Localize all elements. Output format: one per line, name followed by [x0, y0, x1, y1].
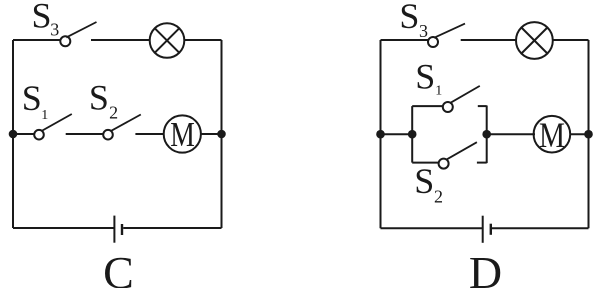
switch S2 (C) blade — [111, 115, 141, 132]
wire: D bottom branch right stub — [477, 162, 487, 164]
wire: C top, left segment to S3 — [13, 39, 61, 41]
switch S1 (D) hinge circle — [443, 102, 453, 112]
wire: C right vertical — [221, 40, 223, 228]
svg-text:2: 2 — [434, 187, 443, 207]
svg-text:2: 2 — [109, 103, 118, 123]
wire: D bottom, left segment to battery — [381, 227, 483, 229]
node: D parallel-block right junction dot — [482, 130, 491, 139]
node: D parallel-block left junction dot — [408, 130, 417, 139]
wire: D right vertical — [588, 40, 590, 228]
svg-text:M: M — [170, 116, 195, 154]
wire: D top branch right stub — [478, 105, 487, 107]
switch S2 (D) hinge circle — [439, 159, 449, 169]
switch S2 (D) blade — [446, 142, 477, 160]
battery (D) long plate — [482, 216, 484, 243]
svg-text:S: S — [22, 78, 42, 118]
wire: D left vertical — [380, 40, 382, 228]
node: C left junction dot — [9, 130, 18, 139]
wire: C middle, S2 to motor — [135, 133, 163, 135]
lamp L (C) cross stroke 1 — [155, 28, 179, 52]
wire: C bottom, left segment to battery — [13, 227, 114, 229]
lamp L (D) circle — [516, 22, 553, 59]
svg-text:1: 1 — [435, 83, 442, 98]
wire: D middle, motor to right dot — [570, 133, 588, 135]
motor M (C) circle — [164, 115, 201, 152]
lamp L (D) cross stroke 1 — [521, 28, 547, 54]
wire: D middle, block to motor — [487, 133, 535, 135]
svg-text:S: S — [415, 56, 435, 96]
switch S3 (C) blade — [66, 22, 96, 37]
svg-text:M: M — [539, 115, 565, 155]
wire: D parallel block bottom branch — [412, 162, 438, 164]
svg-text:D: D — [469, 247, 502, 288]
wire: D middle, left dot to parallel block — [381, 133, 413, 135]
wire: D top, S3 to lamp — [461, 39, 517, 41]
svg-text:S: S — [32, 0, 52, 36]
wire: D top, left segment to S3 — [381, 39, 429, 41]
wire: C middle, dot to S1 — [13, 133, 35, 135]
svg-text:1: 1 — [41, 108, 48, 123]
wire: D bottom, battery to right corner — [492, 227, 589, 229]
wire: C bottom, battery to right corner — [123, 227, 221, 229]
svg-text:S: S — [414, 161, 434, 201]
switch S3 (C) hinge circle — [60, 36, 70, 46]
motor M (D) circle — [534, 116, 571, 153]
switch S1 (C) hinge circle — [34, 130, 44, 140]
lamp L (D) cross stroke 2 — [521, 28, 547, 54]
svg-text:3: 3 — [419, 21, 428, 41]
wire: C left vertical — [12, 40, 14, 228]
wire: D parallel block top branch — [412, 105, 443, 107]
lamp L (C) cross stroke 2 — [155, 28, 179, 52]
wire: D parallel block right vertical — [486, 106, 488, 164]
node: C right junction dot — [217, 130, 226, 139]
svg-text:C: C — [103, 247, 134, 288]
switch S1 (D) blade — [450, 86, 480, 103]
switch S3 (D) hinge circle — [428, 37, 438, 47]
wire: D top, lamp to right corner — [553, 39, 589, 41]
battery (C) long plate — [113, 216, 115, 243]
lamp L (C) circle — [150, 23, 185, 58]
switch S1 (C) blade — [42, 114, 72, 131]
switch S3 (D) blade — [434, 24, 465, 38]
svg-text:3: 3 — [50, 19, 59, 39]
svg-text:S: S — [399, 0, 419, 36]
battery (C) short plate — [121, 224, 123, 235]
wire: C middle, S1 to S2 — [66, 133, 104, 135]
switch S2 (C) hinge circle — [103, 130, 113, 140]
wire: C top, S3 to lamp — [91, 39, 150, 41]
wire: D parallel block left vertical — [411, 106, 413, 163]
wire: C top, lamp to right corner — [184, 39, 221, 41]
wire: C middle, motor to right dot — [201, 133, 222, 135]
battery (D) short plate — [490, 224, 492, 235]
svg-text:S: S — [89, 78, 109, 118]
node: D outer right junction dot — [584, 130, 593, 139]
node: D outer left junction dot — [376, 130, 385, 139]
